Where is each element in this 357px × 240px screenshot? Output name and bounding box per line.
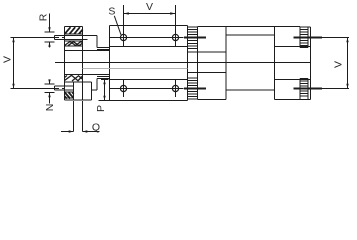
rear body inner rod lines <box>226 35 275 90</box>
hatch band lower yoke <box>65 92 74 98</box>
hole centerlines horizontal <box>110 38 184 89</box>
arrow Q left <box>69 130 74 132</box>
arrow V left top <box>12 38 14 43</box>
port thread stack right lower <box>300 79 308 100</box>
dimension Q extension lines <box>74 101 83 132</box>
yoke lower hatch edges <box>65 92 74 98</box>
arrow Q right <box>83 130 88 132</box>
rear body right section lines <box>275 27 311 100</box>
svg-text:N: N <box>44 104 56 112</box>
yoke window lines <box>65 51 110 75</box>
port thread stack left lower <box>188 78 198 99</box>
svg-text:V: V <box>146 1 153 13</box>
arrow V top right <box>170 12 175 14</box>
svg-text:V: V <box>2 56 14 63</box>
arrow R top <box>48 27 50 32</box>
screw recess rectangle lower <box>65 82 92 100</box>
arrow V right bottom <box>346 84 348 89</box>
zigzag band upper yoke <box>65 42 83 46</box>
arrow V left bottom <box>12 84 14 89</box>
dimension V top line <box>124 5 176 30</box>
mid line B <box>83 68 188 70</box>
mounting hole circle bottom-right <box>172 85 178 91</box>
port bold line right lower <box>294 88 323 90</box>
mounting hole circle bottom-left <box>120 85 126 91</box>
dimension Q line <box>61 131 100 133</box>
zigzag band lower yoke <box>65 75 83 81</box>
plate inner horizontal lines <box>110 47 188 80</box>
rear body step lines <box>188 52 227 73</box>
mounting hole circle top-left <box>120 34 126 40</box>
svg-text:P: P <box>95 105 107 112</box>
rear body outline <box>198 27 311 100</box>
wire upper axis extension left <box>11 37 66 39</box>
dimension V left line <box>13 38 15 89</box>
plate outline <box>110 26 188 101</box>
port bold line right upper <box>294 37 323 39</box>
step lower right of yoke <box>97 77 110 91</box>
port thread stack right upper <box>300 27 308 48</box>
mounting hole circle top-right <box>172 34 178 40</box>
arrow N top <box>48 79 50 84</box>
arrow V top left <box>124 12 129 14</box>
mid line A <box>55 62 311 64</box>
dimension V right line <box>322 38 349 89</box>
yoke band A bottom edge <box>65 33 83 35</box>
rod upper <box>55 36 98 40</box>
rod lower <box>55 86 98 90</box>
port thread stack left upper <box>188 27 198 49</box>
svg-text:Q: Q <box>92 122 100 134</box>
step upper right of yoke <box>97 36 110 50</box>
dimension N lines <box>45 80 55 104</box>
port bold line left upper <box>184 37 206 39</box>
svg-text:S: S <box>108 6 115 18</box>
dimension R lines <box>45 14 55 48</box>
wire lower axis extension left <box>11 88 66 90</box>
rear body inner verticals <box>226 27 275 100</box>
arrow P bottom <box>103 96 105 101</box>
yoke block outline <box>65 27 92 101</box>
port bold line left lower <box>184 88 206 90</box>
hole centerlines vertical <box>124 30 176 98</box>
svg-text:R: R <box>38 13 50 21</box>
svg-text:V: V <box>333 61 345 68</box>
arrow P top <box>103 80 105 85</box>
dimension P line <box>99 80 110 101</box>
hatch band upper yoke <box>65 27 83 34</box>
arrow R bottom <box>48 42 50 47</box>
yoke zigzag band edges upper <box>65 41 83 46</box>
arrow N bottom <box>48 93 50 98</box>
arrow V right top <box>346 38 348 43</box>
leader line S <box>114 16 121 35</box>
